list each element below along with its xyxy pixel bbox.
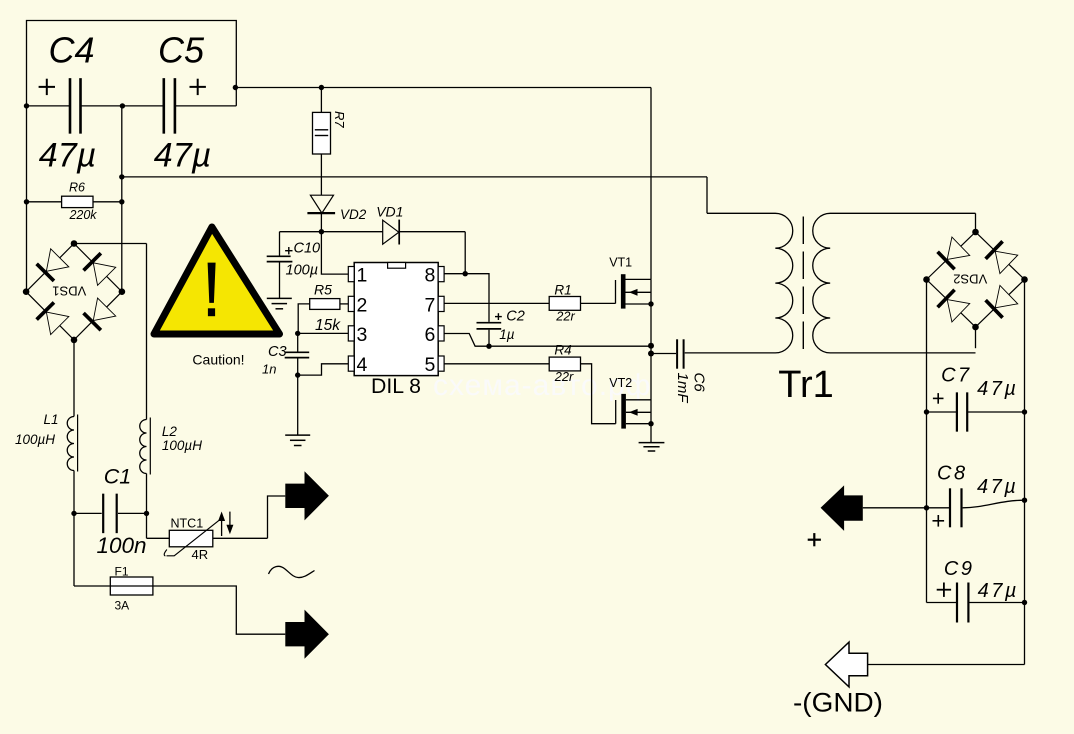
svg-text:4: 4 bbox=[357, 354, 368, 376]
svg-text:1n: 1n bbox=[262, 362, 276, 377]
svg-text:C5: C5 bbox=[158, 30, 205, 71]
svg-text:C7: C7 bbox=[941, 364, 972, 386]
svg-text:DIL 8: DIL 8 bbox=[371, 375, 421, 398]
svg-text:VDS1: VDS1 bbox=[52, 284, 86, 299]
svg-text:1mF: 1mF bbox=[674, 373, 691, 404]
svg-text:VD2: VD2 bbox=[340, 207, 367, 222]
svg-text:Tr1: Tr1 bbox=[778, 364, 834, 406]
svg-text:22r: 22r bbox=[555, 309, 575, 324]
svg-text:1µ: 1µ bbox=[499, 327, 515, 342]
svg-text:8: 8 bbox=[424, 265, 435, 287]
svg-text:1: 1 bbox=[357, 265, 368, 287]
svg-text:47µ: 47µ bbox=[154, 137, 211, 175]
svg-text:100µH: 100µH bbox=[15, 432, 55, 447]
svg-text:5: 5 bbox=[424, 354, 435, 376]
svg-text:C2: C2 bbox=[506, 309, 525, 325]
svg-text:100µH: 100µH bbox=[162, 438, 202, 453]
svg-text:15k: 15k bbox=[315, 317, 341, 334]
svg-text:C1: C1 bbox=[104, 465, 131, 489]
svg-text:R6: R6 bbox=[69, 181, 85, 195]
svg-text:L1: L1 bbox=[44, 412, 59, 427]
svg-text:C4: C4 bbox=[48, 30, 94, 71]
svg-text:47µ: 47µ bbox=[978, 580, 1019, 602]
svg-text:4R: 4R bbox=[192, 547, 209, 562]
svg-text:L2: L2 bbox=[162, 424, 178, 439]
svg-text:47µ: 47µ bbox=[39, 137, 96, 175]
svg-text:R7: R7 bbox=[332, 111, 347, 128]
svg-text:100n: 100n bbox=[96, 533, 146, 558]
svg-text:C8: C8 bbox=[937, 463, 968, 485]
svg-text:22r: 22r bbox=[554, 369, 574, 384]
svg-text:2: 2 bbox=[357, 294, 368, 316]
svg-text:VT1: VT1 bbox=[609, 255, 632, 269]
svg-text:3A: 3A bbox=[115, 599, 130, 613]
svg-text:47µ: 47µ bbox=[977, 476, 1018, 498]
svg-text:F1: F1 bbox=[115, 564, 129, 578]
svg-text:C9: C9 bbox=[944, 558, 975, 580]
svg-text:VT2: VT2 bbox=[609, 376, 632, 390]
svg-text:7: 7 bbox=[424, 294, 435, 316]
svg-text:6: 6 bbox=[424, 324, 435, 346]
svg-text:-(GND): -(GND) bbox=[793, 688, 883, 718]
svg-text:C3: C3 bbox=[268, 344, 287, 360]
svg-text:R4: R4 bbox=[554, 343, 571, 358]
svg-text:220k: 220k bbox=[68, 208, 97, 222]
svg-text:NTC1: NTC1 bbox=[171, 516, 204, 530]
svg-text:R5: R5 bbox=[314, 282, 332, 298]
svg-text:47µ: 47µ bbox=[977, 378, 1018, 400]
svg-text:R1: R1 bbox=[554, 283, 571, 298]
svg-text:C10: C10 bbox=[294, 241, 321, 257]
svg-text:Caution!: Caution! bbox=[192, 351, 244, 367]
svg-text:VD1: VD1 bbox=[376, 204, 403, 220]
svg-text:100µ: 100µ bbox=[286, 263, 319, 279]
svg-text:3: 3 bbox=[357, 324, 368, 346]
svg-text:VDS2: VDS2 bbox=[953, 272, 987, 287]
svg-text:C6: C6 bbox=[691, 373, 708, 393]
